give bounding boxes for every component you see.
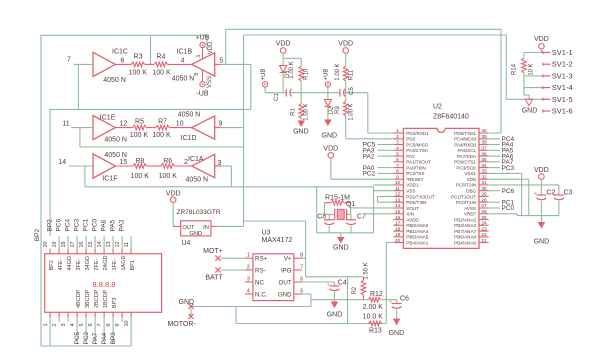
svg-text:6: 6 [121,58,125,65]
svg-text:10 K: 10 K [528,63,534,75]
svg-text:9: 9 [115,323,121,326]
svg-text:PC4/MOSI: PC4/MOSI [454,137,476,142]
svg-text:R14: R14 [512,63,518,75]
svg-text:4: 4 [396,146,399,152]
svg-text:GND: GND [534,239,550,246]
svg-text:3: 3 [247,277,250,283]
svg-text:VDD: VDD [323,145,338,152]
svg-text:PA3/CTS0: PA3/CTS0 [406,148,428,153]
svg-text:33: 33 [481,169,487,175]
svg-text:PB6/ANA6: PB6/ANA6 [454,235,476,240]
svg-text:IC1E: IC1E [100,114,116,121]
svg-text:GND: GND [522,108,538,115]
svg-text:34GD: 34GD [85,256,91,270]
svg-text:16: 16 [395,215,401,221]
svg-text:BP2: BP2 [34,228,41,241]
svg-text:+UB: +UB [196,34,210,41]
svg-text:26: 26 [481,209,487,215]
svg-text:PD3: PD3 [406,137,415,142]
svg-text:19: 19 [395,232,401,238]
svg-text:4050 N: 4050 N [172,76,195,83]
svg-text:GND: GND [333,245,349,252]
svg-text:MOTOR-: MOTOR- [167,321,196,328]
svg-text:100 K: 100 K [129,69,148,76]
svg-text:VDD1: VDD1 [406,183,419,188]
svg-text:DBG: DBG [466,189,476,194]
svg-text:R12: R12 [370,291,383,298]
svg-text:10: 10 [395,180,401,186]
svg-text:31: 31 [481,180,487,186]
svg-text:XOUT: XOUT [406,206,419,211]
svg-text:BP3: BP3 [112,298,118,308]
svg-text:28: 28 [481,197,487,203]
svg-text:1: 1 [196,54,202,57]
svg-text:6: 6 [88,323,94,326]
svg-text:VSS: VSS [207,76,213,88]
svg-text:3FE-: 3FE- [76,258,82,270]
svg-text:20: 20 [43,241,49,247]
svg-text:4FE-: 4FE- [58,258,64,270]
svg-text:PC2: PC2 [83,331,90,344]
svg-text:N.C.: N.C. [255,291,268,298]
svg-text:+: + [534,191,537,197]
svg-text:15: 15 [119,159,127,166]
svg-text:PC6: PC6 [502,188,515,195]
svg-text:4050 N: 4050 N [104,152,127,159]
svg-text:2BCDP: 2BCDP [94,289,100,308]
svg-text:GND: GND [322,133,338,140]
svg-text:SV1-2: SV1-2 [552,60,573,69]
svg-text:U4: U4 [181,240,190,247]
svg-text:17: 17 [395,221,401,227]
svg-text:VDD: VDD [466,177,476,182]
svg-text:SV1-1: SV1-1 [552,48,573,57]
svg-text:44GD: 44GD [67,256,73,270]
svg-text:23: 23 [481,226,487,232]
svg-text:19: 19 [52,241,58,247]
svg-text:R3: R3 [134,53,143,60]
svg-text:PD0/T3IN: PD0/T3IN [406,200,426,205]
svg-text:SV1-4: SV1-4 [552,83,573,92]
svg-text:5: 5 [396,151,399,157]
svg-text:2AGD: 2AGD [103,255,109,270]
svg-text:100 K: 100 K [159,173,178,180]
svg-text:+: + [327,282,330,288]
svg-text:PC0/T1IN: PC0/T1IN [456,200,476,205]
svg-text:100 K: 100 K [152,132,171,139]
svg-text:IC1C: IC1C [112,49,128,56]
svg-text:VDD: VDD [208,41,214,54]
svg-text:38: 38 [481,140,487,146]
svg-text:1: 1 [247,253,250,259]
svg-text:C8: C8 [317,214,326,221]
svg-text:VDD: VDD [534,167,549,174]
svg-text:37: 37 [481,146,487,152]
svg-text:18: 18 [395,226,401,232]
svg-text:1.00 K: 1.00 K [349,103,355,120]
svg-text:VSS: VSS [406,189,415,194]
svg-text:PA4/RXD0: PA4/RXD0 [454,142,476,147]
svg-text:8: 8 [194,73,200,76]
svg-text:8: 8 [106,323,112,326]
svg-text:C5: C5 [349,87,355,95]
svg-text:PC3: PC3 [502,165,515,172]
svg-text:100 K: 100 K [152,69,171,76]
svg-text:C1: C1 [274,93,280,101]
svg-text:14: 14 [395,203,401,209]
svg-text:VDD: VDD [166,190,181,197]
svg-text:C4: C4 [338,279,347,286]
svg-text:21: 21 [481,238,487,244]
svg-text:1FE-: 1FE- [112,258,118,270]
svg-text:30: 30 [481,186,487,192]
svg-text:RS-: RS- [255,267,266,274]
svg-text:36: 36 [481,151,487,157]
svg-text:10: 10 [124,320,130,326]
svg-text:R5: R5 [135,118,144,125]
svg-text:24: 24 [481,221,487,227]
svg-text:PA2: PA2 [406,154,415,159]
svg-text:PC6: PC6 [55,218,62,231]
svg-text:PB2/ANA2: PB2/ANA2 [454,217,476,222]
svg-text:100 K: 100 K [131,173,150,180]
svg-text:Z8F640140: Z8F640140 [433,113,469,120]
svg-text:R1: R1 [290,108,296,116]
svg-text:PD4/RXD1: PD4/RXD1 [406,131,429,136]
svg-text:1: 1 [43,323,49,326]
svg-text:40: 40 [481,128,487,134]
svg-text:12: 12 [395,192,401,198]
svg-text:IC1A: IC1A [188,156,204,163]
svg-text:4050 N: 4050 N [186,177,209,184]
svg-text:3BCDP: 3BCDP [85,289,91,308]
svg-text:+: + [551,191,554,197]
svg-text:1.50 K: 1.50 K [364,262,370,279]
svg-text:PC1/T1OUT: PC1/T1OUT [451,194,476,199]
svg-text:10: 10 [176,121,184,128]
svg-text:PD1/TX3OUT: PD1/TX3OUT [406,194,435,199]
svg-text:C3: C3 [564,190,573,197]
svg-text:1: 1 [396,128,399,134]
svg-text:BP2: BP2 [46,219,53,232]
svg-text:100 K: 100 K [130,132,149,139]
svg-text:GND: GND [189,231,202,237]
svg-text:IN: IN [203,225,209,231]
svg-text:R9: R9 [335,106,341,114]
svg-text:4050 N: 4050 N [104,136,127,143]
svg-text:22: 22 [481,232,487,238]
svg-text:4: 4 [181,58,185,65]
svg-text:GND: GND [293,129,309,136]
svg-text:PA2: PA2 [363,153,375,160]
svg-text:PA1/T0OUT: PA1/T0OUT [406,160,431,165]
svg-text:6: 6 [396,157,399,163]
svg-text:2.00 K: 2.00 K [363,304,384,311]
svg-text:PA6: PA6 [100,219,107,231]
svg-text:XIN: XIN [406,212,414,217]
svg-text:+: + [389,300,392,306]
svg-text:PC1: PC1 [82,218,89,231]
svg-text:PB0/ANA0: PB0/ANA0 [406,223,428,228]
svg-text:32: 32 [481,174,487,180]
svg-text:U3: U3 [262,229,271,236]
svg-text:D2: D2 [328,106,334,114]
svg-text:MAX4172: MAX4172 [262,237,293,244]
svg-text:PA4: PA4 [101,332,108,344]
svg-text:PA0/T0IN: PA0/T0IN [406,165,426,170]
svg-text:13: 13 [395,197,401,203]
svg-text:PC3/SCK: PC3/SCK [456,165,477,170]
svg-text:VDD: VDD [276,41,291,48]
svg-text:2: 2 [184,159,188,166]
svg-text:PC5/MISO: PC5/MISO [406,142,428,147]
svg-text:R13: R13 [369,327,382,334]
svg-text:8: 8 [300,253,303,259]
svg-text:PA5: PA5 [109,219,116,231]
svg-text:PA7/SDA: PA7/SDA [457,154,477,159]
svg-text:V+: V+ [284,256,292,263]
svg-text:PB5/ANA5: PB5/ANA5 [406,235,428,240]
svg-text:-UB: -UB [196,91,208,98]
svg-text:GND: GND [278,291,292,298]
svg-text:8: 8 [396,169,399,175]
svg-text:R6: R6 [163,158,172,165]
svg-text:4050 N: 4050 N [103,77,126,84]
svg-text:PC5: PC5 [74,331,81,344]
svg-text:+UB: +UB [261,69,267,81]
svg-text:4050 N: 4050 N [178,112,201,119]
svg-text:*RESET: *RESET [406,177,423,182]
svg-text:15: 15 [395,209,401,215]
svg-text:PC2/*SS: PC2/*SS [406,171,424,176]
svg-text:MOT+: MOT+ [203,248,223,255]
svg-text:GND: GND [327,312,343,319]
svg-text:ZR78L033GTR: ZR78L033GTR [177,209,221,216]
svg-text:IC1D: IC1D [181,135,197,142]
svg-text:PC6/T2IN: PC6/T2IN [456,183,476,188]
svg-text:VREF: VREF [464,212,476,217]
svg-text:11: 11 [395,186,400,192]
svg-text:PB3/ANA3: PB3/ANA3 [454,223,476,228]
svg-text:7: 7 [97,323,103,326]
svg-text:4: 4 [247,289,250,295]
svg-text:PC3: PC3 [73,218,80,231]
svg-text:4BCDP: 4BCDP [76,289,82,308]
svg-text:4: 4 [70,323,76,326]
svg-text:5: 5 [79,323,85,326]
svg-text:BP3: BP3 [110,332,117,345]
svg-text:VDD: VDD [534,36,549,43]
svg-text:GND: GND [179,299,195,306]
svg-text:VSS1: VSS1 [464,171,476,176]
svg-text:14: 14 [97,241,103,247]
svg-text:RS+: RS+ [255,256,268,263]
svg-text:2: 2 [247,265,250,271]
svg-text:SV1-3: SV1-3 [552,71,573,80]
svg-text:PB7/ANA7: PB7/ANA7 [454,229,476,234]
svg-text:PC2: PC2 [363,171,376,178]
svg-text:PC0: PC0 [91,218,98,231]
svg-text:PB4/ANA1: PB4/ANA1 [406,240,428,245]
svg-text:29: 29 [481,192,487,198]
svg-text:PB4/ANA6: PB4/ANA6 [454,240,476,245]
svg-text:VDD: VDD [338,41,353,48]
svg-text:IC1F: IC1F [102,176,117,183]
svg-text:11: 11 [124,242,130,248]
svg-text:27: 27 [481,203,487,209]
svg-text:SV1-5: SV1-5 [552,95,573,104]
svg-text:1AGD: 1AGD [121,255,127,270]
svg-text:8.8.8.8: 8.8.8.8 [93,280,116,289]
svg-text:5: 5 [219,57,223,64]
svg-text:39: 39 [481,134,487,140]
svg-text:12: 12 [120,121,128,128]
svg-text:R8: R8 [135,158,144,165]
svg-text:35: 35 [481,157,487,163]
svg-text:AVSS: AVSS [464,206,476,211]
svg-text:Q1: Q1 [346,201,355,208]
svg-text:PD6/CTS1: PD6/CTS1 [454,160,476,165]
svg-text:+UB: +UB [324,69,330,81]
svg-text:NC: NC [255,279,264,286]
svg-text:\PG: \PG [281,267,292,274]
svg-text:SV1-6: SV1-6 [552,107,573,116]
svg-text:20: 20 [395,238,401,244]
svg-text:PA7: PA7 [92,332,99,344]
svg-text:3: 3 [396,140,399,146]
svg-text:2: 2 [396,134,399,140]
svg-text:1.00 K: 1.00 K [303,103,309,120]
svg-text:R11: R11 [349,69,355,80]
svg-text:PA3: PA3 [118,219,125,231]
svg-text:1BCDP: 1BCDP [103,289,109,308]
svg-text:BATT: BATT [205,275,223,282]
svg-text:1.00 K: 1.00 K [289,61,295,78]
svg-text:7: 7 [67,56,71,63]
svg-text:7: 7 [300,265,303,271]
svg-text:OUT: OUT [279,279,292,286]
svg-text:BP1: BP1 [130,260,136,270]
svg-text:R10: R10 [303,68,309,80]
svg-text:GND: GND [389,330,405,337]
svg-text:17: 17 [70,241,76,247]
svg-text:R4: R4 [156,53,165,60]
svg-text:R2: R2 [352,286,358,294]
svg-text:9: 9 [219,120,223,127]
svg-text:15: 15 [88,241,94,247]
svg-text:16: 16 [79,241,85,247]
svg-text:3: 3 [218,160,222,167]
svg-text:2: 2 [52,323,58,326]
svg-text:PC4: PC4 [64,218,71,231]
svg-text:2FE-: 2FE- [94,258,100,270]
svg-text:C6: C6 [400,296,409,303]
svg-text:1.00 K: 1.00 K [335,63,341,80]
svg-text:34: 34 [481,163,487,169]
svg-text:14: 14 [58,159,66,166]
svg-text:PA6/SCL: PA6/SCL [458,148,477,153]
svg-text:25: 25 [481,215,487,221]
svg-text:9: 9 [396,174,399,180]
svg-text:IC1B: IC1B [177,49,193,56]
svg-text:AVDD: AVDD [406,217,419,222]
svg-text:18: 18 [61,241,67,247]
svg-text:10.0 K: 10.0 K [363,313,384,320]
svg-text:7: 7 [396,163,399,169]
svg-text:PB1/ANA4: PB1/ANA4 [406,229,428,234]
svg-text:3: 3 [61,323,67,326]
svg-text:R7: R7 [158,118,167,125]
svg-text:13: 13 [106,241,112,247]
svg-text:PD5/TXD1: PD5/TXD1 [454,131,476,136]
svg-text:11: 11 [62,120,69,127]
svg-text:C7: C7 [357,214,366,221]
svg-text:12: 12 [115,241,121,247]
svg-text:U2: U2 [433,103,442,110]
svg-text:PC0: PC0 [502,205,515,212]
svg-text:BP2: BP2 [49,260,55,270]
